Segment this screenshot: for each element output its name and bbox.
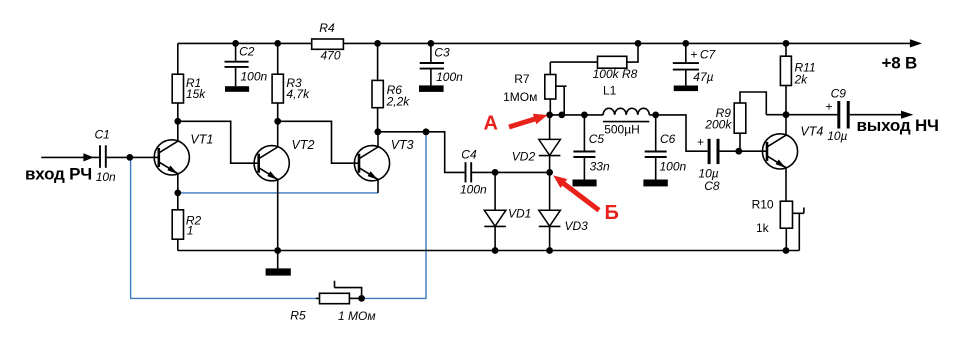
resistor R1 — [172, 43, 206, 121]
node VT2 collector / R3 bottom — [274, 118, 281, 125]
resistor R5 trimmer — [290, 281, 375, 323]
node input at C1/VT1 base — [126, 154, 133, 161]
node VT2 emitter at rail — [274, 247, 281, 254]
svg-text:C7: C7 — [700, 47, 717, 61]
svg-text:4,7k: 4,7k — [286, 87, 310, 101]
node R5 wiper — [358, 295, 365, 302]
node C6 top — [652, 112, 659, 119]
ground under C3 — [419, 85, 444, 92]
svg-text:2k: 2k — [794, 73, 809, 87]
svg-text:C6: C6 — [660, 132, 676, 146]
resistor R7 trimmer — [503, 62, 566, 115]
wire VT3 collector to C4 — [378, 132, 465, 173]
svg-text:10n: 10n — [96, 170, 116, 184]
svg-text:Б: Б — [605, 202, 619, 224]
input arrowhead — [83, 153, 93, 161]
node VD1 top — [492, 169, 499, 176]
svg-text:C4: C4 — [461, 147, 477, 161]
node B junction — [546, 169, 553, 176]
node C5 top — [581, 112, 588, 119]
capacitor C9 — [826, 86, 849, 143]
svg-text:выход НЧ: выход НЧ — [857, 116, 939, 135]
node C3 top — [428, 40, 435, 47]
wire VT1 emitter — [177, 174, 179, 193]
svg-text:100n: 100n — [436, 70, 463, 84]
svg-text:+8 В: +8 В — [882, 53, 918, 72]
svg-text:33n: 33n — [590, 159, 610, 173]
svg-text:+: + — [826, 99, 833, 113]
transistor VT1 — [154, 133, 213, 175]
node C7 top — [682, 40, 689, 47]
wire C8 to VT4 base — [720, 150, 768, 152]
wire VT3 collector — [377, 132, 379, 147]
node R9 bottom — [735, 148, 742, 155]
label output — [857, 116, 939, 135]
node VD1 bottom at rail — [492, 247, 499, 254]
svg-text:+: + — [697, 135, 704, 149]
ground under C2 — [225, 86, 249, 92]
svg-text:VT2: VT2 — [292, 138, 315, 152]
node R8 at +8V rail — [635, 40, 642, 47]
resistor R2 — [172, 193, 201, 251]
wire VT4 collector row to C9 — [766, 114, 837, 116]
svg-text:C8: C8 — [704, 179, 720, 193]
label A — [484, 113, 498, 135]
svg-text:200k: 200k — [704, 118, 732, 132]
svg-text:R10: R10 — [752, 197, 774, 211]
transistor VT3 — [354, 138, 414, 181]
node VD3 bottom at rail — [546, 247, 553, 254]
diode VD1 — [484, 172, 531, 250]
svg-text:VD1: VD1 — [508, 207, 531, 221]
arrowhead output — [901, 111, 913, 119]
svg-text:1k: 1k — [756, 221, 770, 235]
resistor R9 — [704, 92, 766, 151]
wire C9 to output — [850, 114, 902, 116]
wire VT4 collector — [785, 115, 787, 136]
node at blue feedback tap — [423, 128, 430, 135]
transistor VT2 — [254, 138, 314, 181]
node R3 top — [274, 40, 281, 47]
svg-text:А: А — [484, 113, 498, 135]
svg-text:470: 470 — [321, 49, 341, 63]
capacitor C5 — [573, 115, 610, 180]
wire ground bottom rail — [178, 250, 800, 252]
wire blue from R5 wiper node up to VT3 collector node — [362, 132, 426, 299]
red arrow A — [509, 114, 548, 127]
diode VD2 — [512, 115, 561, 172]
node A junction — [546, 112, 553, 119]
wire VT2 emitter to ground rail — [277, 179, 279, 250]
svg-text:1 МОм: 1 МОм — [338, 309, 376, 323]
transistor VT4 — [762, 124, 823, 169]
svg-text:1МОм: 1МОм — [503, 90, 537, 104]
svg-text:R7: R7 — [514, 72, 530, 86]
capacitor C4 — [460, 147, 487, 196]
svg-text:C5: C5 — [589, 132, 605, 146]
svg-text:VD3: VD3 — [565, 219, 589, 233]
capacitor C3 — [420, 43, 463, 85]
wire +8V top rail — [178, 42, 911, 44]
svg-text:VD2: VD2 — [512, 149, 536, 163]
capacitor C1 — [95, 128, 117, 184]
wire blue feedback from VT1 base down and along bottom to R5 — [131, 157, 316, 298]
ground under C7 — [674, 86, 698, 92]
node C2 top — [232, 40, 239, 47]
ground symbol below VT2 — [266, 251, 291, 276]
svg-text:C1: C1 — [95, 128, 110, 142]
capacitor C8 — [697, 135, 720, 193]
wire VT3 emitter — [377, 179, 379, 193]
node VT1 collector / R1 bottom — [174, 118, 181, 125]
node R10 bottom at rail — [783, 247, 790, 254]
wire VT2 collector — [277, 121, 279, 147]
svg-text:VT4: VT4 — [800, 124, 823, 138]
node R7 wiper junction — [558, 112, 565, 119]
wire VT2 collector to VT3 base — [278, 121, 354, 163]
wire VT1 collector to VT2 base — [178, 121, 254, 163]
ground under C5 — [573, 180, 597, 187]
svg-text:2,2k: 2,2k — [386, 95, 411, 109]
svg-text:+: + — [691, 48, 698, 62]
node VT4 collector — [783, 111, 790, 118]
wire blue VT1 emitter to VT3 emitter — [178, 192, 378, 194]
svg-text:1: 1 — [187, 224, 194, 238]
resistor R11 — [780, 43, 815, 114]
svg-text:VT3: VT3 — [391, 138, 414, 152]
node R4 right / R6 top — [374, 40, 381, 47]
resistor R6 — [372, 43, 410, 131]
resistor R4 — [312, 21, 344, 63]
node VT1 emitter — [174, 190, 181, 197]
svg-text:500µH: 500µH — [604, 122, 640, 136]
svg-text:вход РЧ: вход РЧ — [25, 165, 92, 184]
wire C4 to node B — [472, 171, 550, 173]
transistor VT4 emitter wire — [785, 168, 787, 202]
node R11 top at rail — [783, 40, 790, 47]
capacitor C2 — [225, 43, 268, 86]
wire L1 to C8 — [649, 115, 707, 151]
svg-text:R4: R4 — [319, 21, 335, 35]
svg-text:R5: R5 — [290, 309, 306, 323]
svg-text:C2: C2 — [239, 45, 255, 59]
svg-text:15k: 15k — [186, 87, 206, 101]
label input — [25, 165, 92, 184]
resistor R8 — [550, 43, 638, 81]
svg-text:C3: C3 — [434, 45, 450, 59]
capacitor C6 — [645, 115, 687, 180]
ground under C6 — [643, 180, 667, 187]
node VT3 collector / R6 bottom — [374, 128, 381, 135]
wire node A to L1 — [550, 114, 604, 116]
wire input line — [41, 156, 154, 158]
svg-text:10µ: 10µ — [827, 129, 847, 143]
svg-text:C9: C9 — [831, 86, 847, 100]
red arrow B — [553, 175, 599, 210]
svg-text:VT1: VT1 — [190, 133, 213, 147]
wire VT1 collector — [177, 121, 179, 141]
capacitor C7 — [673, 43, 717, 85]
svg-text:100n: 100n — [460, 182, 487, 196]
resistor R10 trimmer — [752, 197, 804, 250]
svg-text:100n: 100n — [241, 70, 268, 84]
svg-text:100n: 100n — [660, 159, 687, 173]
svg-text:47µ: 47µ — [693, 70, 713, 84]
resistor R3 — [272, 43, 310, 121]
diode VD3 — [539, 172, 588, 250]
inductor L1 — [603, 84, 649, 137]
label B — [605, 202, 619, 224]
svg-text:L1: L1 — [603, 84, 617, 98]
svg-text:100k R8: 100k R8 — [593, 67, 638, 81]
arrowhead +8V — [910, 39, 922, 47]
label +8 V — [882, 53, 918, 72]
